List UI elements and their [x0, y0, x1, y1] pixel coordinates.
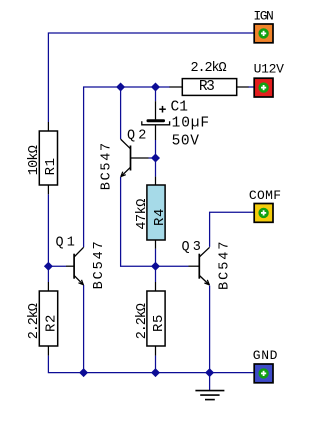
svg-text:2.2kΩ: 2.2kΩ [27, 303, 42, 339]
svg-text:Q1: Q1 [56, 236, 79, 251]
svg-text:R4: R4 [152, 208, 168, 226]
svg-text:2.2kΩ: 2.2kΩ [191, 61, 227, 76]
svg-text:U12V: U12V [254, 62, 285, 77]
svg-text:BC547: BC547 [92, 239, 107, 289]
svg-text:COMF: COMF [249, 188, 281, 203]
svg-text:50V: 50V [172, 134, 200, 150]
svg-text:47kΩ: 47kΩ [135, 199, 150, 230]
svg-text:10µF: 10µF [172, 115, 210, 131]
svg-text:Q2: Q2 [127, 129, 150, 144]
svg-text:C1: C1 [171, 99, 188, 115]
svg-text:R1: R1 [43, 157, 59, 175]
svg-text:GND: GND [253, 348, 278, 363]
svg-text:R2: R2 [44, 314, 60, 332]
svg-text:IGN: IGN [253, 8, 273, 23]
svg-text:BC547: BC547 [99, 141, 114, 190]
svg-text:BC547: BC547 [218, 239, 233, 290]
svg-text:Q3: Q3 [182, 240, 205, 255]
svg-text:R5: R5 [151, 314, 167, 332]
svg-text:R3: R3 [199, 79, 214, 95]
svg-text:2.2kΩ: 2.2kΩ [135, 303, 150, 339]
svg-text:10kΩ: 10kΩ [27, 145, 42, 175]
